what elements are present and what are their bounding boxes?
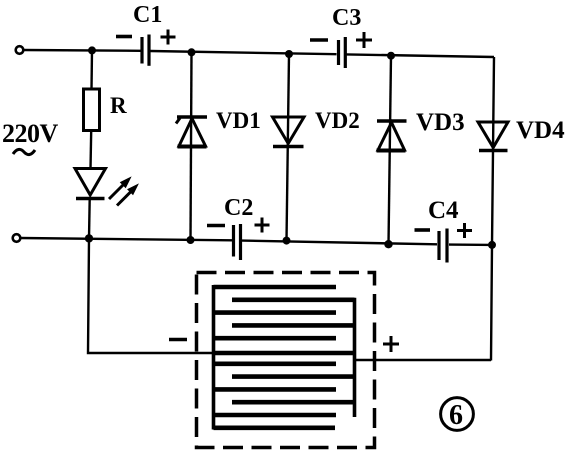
wire output plus: [355, 359, 492, 361]
diode VD1 vertical wire: [191, 52, 192, 240]
electrode grid plate 6: [214, 351, 355, 356]
electrode grid plate 3: [214, 310, 337, 315]
label C3 minus: [310, 38, 328, 42]
label output plus: [383, 336, 399, 352]
wire right side vertical: [491, 57, 494, 361]
label C2 minus: [207, 224, 225, 228]
svg-text:C4: C4: [428, 197, 459, 224]
junction lower rail right corner: [488, 241, 496, 249]
junction top of R branch: [88, 46, 96, 54]
capacitor C3: [339, 37, 346, 68]
electrode left bus bar: [212, 285, 216, 430]
label C4 plus: [457, 223, 472, 238]
wire lower rail segment 1: [21, 238, 233, 240]
electrode grid plate 10: [232, 400, 355, 405]
terminal top-left input: [16, 46, 24, 54]
wire output minus drop: [88, 238, 214, 353]
label C2 plus: [255, 218, 270, 233]
electrode right bus bar: [353, 298, 357, 417]
capacitor C2: [234, 224, 241, 260]
electrode grid plate 8: [232, 374, 355, 379]
wire LED to lower rail: [88, 199, 91, 239]
svg-text:VD2: VD2: [315, 108, 360, 133]
svg-text:VD4: VD4: [516, 117, 565, 144]
svg-text:C2: C2: [224, 195, 253, 221]
capacitor C1: [142, 35, 149, 66]
wire lower rail segment 2: [242, 241, 437, 245]
svg-text:C1: C1: [133, 2, 162, 28]
junction top of VD3: [387, 52, 395, 60]
svg-text:C3: C3: [332, 5, 361, 31]
label C3 plus: [356, 32, 372, 48]
junction bottom of VD3: [384, 240, 392, 248]
enclosure dashed box: [197, 273, 375, 448]
label C1 minus: [116, 35, 132, 39]
junction top of VD2: [285, 50, 293, 58]
electrode grid plate 12: [214, 425, 336, 430]
terminal bottom-left input: [13, 234, 21, 242]
wire R to LED: [89, 131, 92, 170]
electrode grid plate 7: [214, 361, 337, 366]
diode VD3: [377, 121, 407, 151]
wire top rail segment 2: [151, 51, 337, 54]
diode VD1: [176, 117, 207, 147]
label C1 plus: [161, 30, 176, 45]
junction bottom of VD1: [187, 236, 195, 244]
diode VD3 vertical wire: [389, 56, 392, 245]
wire R branch upper: [90, 50, 93, 89]
diode VD2: [273, 117, 305, 147]
junction top of VD1: [188, 48, 196, 56]
svg-text:VD3: VD3: [416, 109, 465, 136]
electrode grid plate 5: [214, 336, 337, 341]
wire top rail segment 3: [347, 54, 495, 57]
diode VD4: [478, 122, 508, 151]
wire lower rail segment 3: [449, 243, 492, 246]
LED arrow 1: [109, 178, 131, 200]
capacitor C4: [439, 229, 447, 263]
resistor R: [84, 89, 100, 131]
svg-text:6: 6: [449, 400, 463, 431]
electrode grid plate 4: [232, 323, 355, 328]
label output minus: [169, 338, 187, 342]
electrode grid plate 1: [214, 285, 337, 290]
junction lower rail LED branch: [85, 234, 93, 242]
LED arrow 2: [117, 185, 138, 206]
electrode grid plate 11: [214, 413, 337, 418]
svg-text:220V: 220V: [2, 119, 59, 148]
wire top rail segment 1: [24, 49, 142, 52]
diode VD2 vertical wire: [287, 54, 290, 241]
svg-text:R: R: [110, 93, 127, 118]
label AC tilde: [13, 149, 35, 154]
label C4 minus: [415, 228, 431, 232]
svg-text:VD1: VD1: [216, 108, 261, 133]
LED lamp: [75, 169, 106, 199]
figure number 6 badge: [441, 398, 474, 431]
electrode grid plate 9: [214, 387, 337, 392]
junction bottom of VD2: [283, 237, 291, 245]
electrode grid plate 2: [232, 297, 355, 302]
